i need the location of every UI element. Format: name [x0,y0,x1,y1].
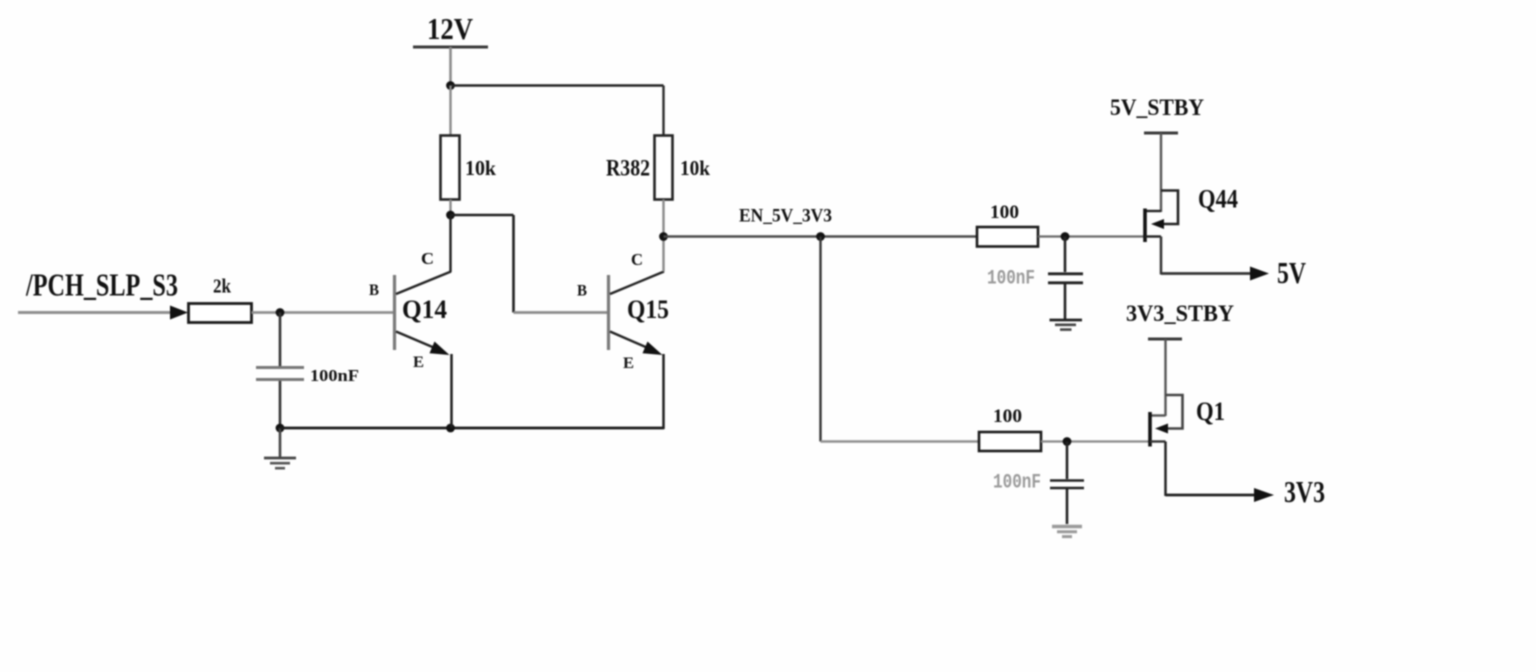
svg-text:E: E [413,354,424,371]
transistor Q1 (P-MOSFET) [1150,395,1183,447]
svg-text:EN_5V_3V3: EN_5V_3V3 [739,206,832,227]
svg-text:R382: R382 [606,156,650,182]
ground GND3 (grey) [1052,527,1082,537]
wire 3V3_STBY down to Q1 [1164,339,1166,416]
wire Q15 emitter down [662,354,665,429]
junction emitter rail left [276,424,285,433]
wire Q14 emitter down [450,354,453,428]
svg-text:5V_STBY: 5V_STBY [1110,95,1204,120]
svg-text:2k: 2k [213,276,232,298]
capacitor C3 100nF (Q1 gate) [1050,442,1084,525]
power symbol 3V3_STBY [1148,338,1182,341]
svg-text:100: 100 [990,202,1019,223]
arrow input into 2k resistor [170,306,188,320]
transistor Q14 [395,272,452,356]
wire EN branch down [819,237,821,442]
wire resistor to collector node [449,200,451,216]
svg-text:100nF: 100nF [987,268,1035,291]
junction input filter node [276,308,285,317]
power symbol 12V [413,46,488,49]
capacitor C1 100nF (input filter) [256,313,304,429]
wire input net [18,311,172,314]
junction Q14 collector node [446,211,455,220]
ground GND2 [1050,320,1083,330]
arrow 5V output [1250,267,1269,281]
svg-text:10k: 10k [680,156,710,180]
resistor 2k (base series) [189,304,252,323]
resistor R382 10k (Q15 collector load) [655,136,673,200]
svg-text:12V: 12V [427,12,473,46]
svg-text:Q44: Q44 [1198,185,1238,214]
transistor Q44 (P-MOSFET) [1145,191,1178,243]
svg-text:10k: 10k [465,156,496,180]
wire emitter rail [280,427,664,430]
svg-text:/PCH_SLP_S3: /PCH_SLP_S3 [25,267,178,303]
wire 100 to Q1 gate [1041,440,1151,442]
junction Q14 emitter on rail [446,424,455,433]
svg-text:E: E [623,355,634,372]
svg-text:5V: 5V [1277,255,1306,290]
svg-text:C: C [631,250,643,269]
capacitor C2 100nF (Q44 gate) [1048,237,1083,320]
wire crossover to Q15 base [514,311,608,314]
transistor Q15 [609,272,665,356]
ground GND1 [264,428,296,468]
wire EN branch to 100 resistor (bottom) [821,440,980,442]
resistor 100 (Q1 gate) [979,432,1041,451]
svg-text:C: C [421,249,434,268]
svg-text:3V3_STBY: 3V3_STBY [1126,301,1234,326]
svg-text:100: 100 [993,406,1022,427]
arrow 3V3 output [1254,488,1274,502]
wire collector node to crossover (horizontal) [451,214,514,217]
svg-text:3V3: 3V3 [1284,474,1325,509]
wire 5V output [1161,272,1252,275]
junction Q44 gate filter node [1061,232,1070,241]
junction Q1 gate filter node [1063,437,1072,446]
wire 12V rail to R382 column [451,84,664,87]
wire 12V rail down to R382 [662,86,664,137]
svg-text:B: B [369,282,379,299]
wire 12V bar to rail node [449,47,452,86]
svg-text:100nF: 100nF [993,472,1041,495]
wire 2k to Q14 base [252,311,394,314]
wire 100 to Q44 gate [1038,235,1146,237]
wire Q44 source down [1160,237,1163,275]
wire rail down to resistor 10k left [449,86,451,137]
svg-text:Q1: Q1 [1196,397,1225,426]
junction EN branch [816,232,825,241]
resistor 100 (Q44 gate) [977,227,1038,247]
svg-text:Q14: Q14 [402,295,447,324]
wire crossover vertical down [512,215,515,313]
wire collector node down to Q14 collector [449,215,451,272]
junction EN node at R382 [659,232,668,241]
power symbol 5V_STBY [1144,132,1178,135]
junction at 12V rail [446,81,455,90]
wire 3V3 output [1166,494,1257,497]
resistor 10k left (Q14 collector load) [441,136,460,200]
wire Q15 collector up [662,237,664,272]
svg-text:100nF: 100nF [310,366,359,385]
wire 5V_STBY down to Q44 [1160,133,1162,212]
wire Q1 source down [1164,442,1167,497]
wire EN net horizontal [664,235,978,237]
wire R382 to EN node [662,200,664,238]
svg-text:Q15: Q15 [627,295,669,324]
svg-text:B: B [577,283,587,300]
